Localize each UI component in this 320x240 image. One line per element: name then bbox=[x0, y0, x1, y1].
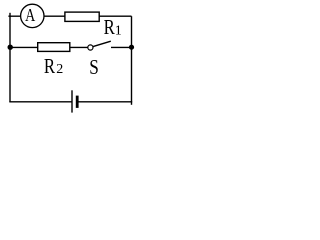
svg-text:2: 2 bbox=[56, 62, 63, 77]
svg-text:R: R bbox=[44, 55, 55, 78]
svg-text:S: S bbox=[89, 57, 99, 80]
svg-text:R: R bbox=[104, 16, 115, 39]
svg-text:1: 1 bbox=[115, 24, 122, 39]
svg-text:A: A bbox=[25, 6, 35, 25]
